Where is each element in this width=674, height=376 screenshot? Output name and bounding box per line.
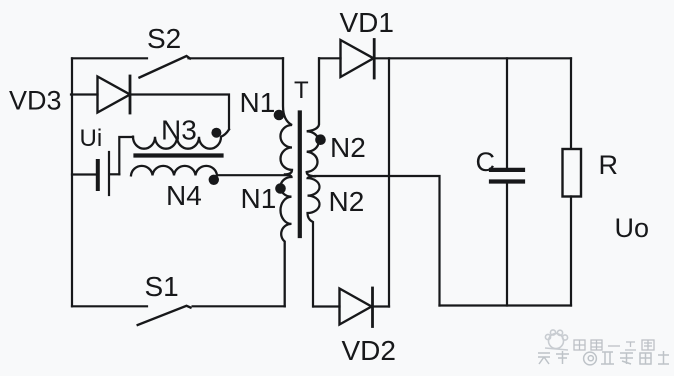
watermark line2 pseudo-glyphs	[538, 351, 669, 365]
wire: VD3 cathode to N3 top corner	[130, 95, 229, 130]
svg-text:N1: N1	[241, 183, 277, 214]
resistor R	[570, 58, 572, 149]
svg-text:N1: N1	[240, 87, 276, 118]
diode VD1	[320, 57, 341, 59]
switch S2	[140, 56, 191, 78]
dot: N1 lower polarity	[275, 183, 286, 194]
svg-text:N2: N2	[329, 186, 365, 217]
svg-text:VD2: VD2	[342, 335, 396, 366]
dot: N2 upper polarity	[315, 134, 326, 145]
svg-text:S1: S1	[145, 271, 179, 302]
wire: S1 to primary bottom	[193, 305, 285, 307]
inductor N3	[133, 130, 229, 149]
core: transformer bar	[298, 113, 302, 237]
svg-text:R: R	[599, 150, 619, 180]
wire: secondary center tap to bottom rail	[315, 176, 440, 306]
capacitor C	[506, 58, 508, 168]
wire: output riser VD2 cathode to top rail	[388, 58, 390, 306]
wire: N4 to primary center tap	[217, 174, 287, 176]
svg-text:T: T	[294, 77, 309, 104]
svg-text:N2: N2	[330, 132, 366, 163]
dot: N3 polarity	[211, 128, 221, 138]
wire: junction riser to N3	[119, 137, 133, 174]
switch S1	[138, 306, 191, 325]
inductor N4	[131, 166, 217, 175]
dot: N1 upper polarity	[274, 110, 285, 121]
svg-text:Uo: Uo	[615, 213, 650, 243]
wire: bottom rail to S1	[72, 305, 147, 307]
diode VD3	[98, 76, 131, 113]
battery Ui	[72, 152, 119, 195]
transformer T secondary winding N2 (upper+lower)	[307, 58, 319, 176]
transformer T primary winding N1 (upper+lower)	[280, 58, 292, 174]
core: N3/N4 coupled inductor bar	[136, 153, 222, 157]
svg-text:VD3: VD3	[9, 86, 62, 116]
watermark logo mark	[545, 330, 568, 350]
wire: VD1 cathode to top-right rail	[374, 57, 571, 59]
svg-text:VD1: VD1	[340, 7, 394, 38]
diode VD2	[340, 288, 373, 327]
watermark line1 pseudo-glyphs	[574, 340, 654, 350]
wire: top-left horizontal to S2	[72, 57, 147, 59]
svg-text:Ui: Ui	[80, 125, 103, 152]
wire: VD2 cathode to riser	[373, 305, 390, 307]
svg-text:S2: S2	[147, 23, 181, 54]
svg-text:C: C	[476, 147, 496, 177]
svg-text:N4: N4	[166, 180, 202, 211]
wire: left rail vertical	[71, 58, 73, 306]
wire: bottom output rail	[440, 304, 572, 306]
svg-text:N3: N3	[161, 115, 197, 146]
wire: VD3 anode wire	[71, 93, 98, 95]
dot: N4 polarity	[209, 175, 219, 185]
wire: N2 lower to VD2 anode	[314, 305, 340, 307]
wire: S2 right to primary corner	[189, 57, 284, 59]
